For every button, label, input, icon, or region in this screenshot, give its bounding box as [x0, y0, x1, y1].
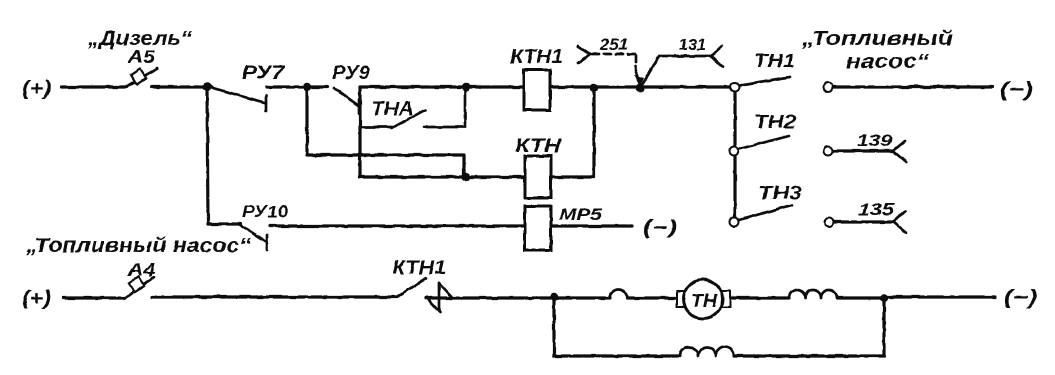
node junction 1: [203, 83, 211, 91]
svg-text:КТН1: КТН1: [392, 258, 446, 279]
wire to TH1 contact: [644, 85, 731, 88]
node junction 6: [550, 293, 558, 301]
svg-text:131: 131: [679, 35, 706, 54]
coil МР5: [525, 206, 551, 250]
contact ТН2: [730, 136, 907, 162]
contact РУ7: [213, 88, 266, 111]
svg-text:РУ10: РУ10: [242, 202, 289, 221]
svg-text:насос“: насос“: [846, 51, 929, 73]
contact ТНА: [360, 87, 465, 128]
svg-text:(−): (−): [1004, 287, 1037, 309]
inductor hump single: [610, 290, 627, 299]
contact ТН3: [730, 205, 907, 233]
svg-text:„Топливный насос“: „Топливный насос“: [25, 235, 251, 257]
wire mark 251: [578, 46, 644, 87]
svg-text:А5: А5: [127, 47, 156, 67]
wire KTN1 contact to motor branch: [426, 296, 610, 299]
node junction wire 251/131: [636, 84, 645, 93]
wire top main to KTN1: [360, 85, 524, 88]
svg-text:135: 135: [858, 200, 895, 219]
wire A5 to node 1: [152, 85, 212, 88]
wire series winding to node 7: [837, 296, 884, 299]
svg-text:КТН: КТН: [515, 136, 563, 157]
contact РУ9: [334, 88, 359, 114]
wire vertical left shunt: [552, 298, 555, 356]
breaker A4: [125, 277, 154, 298]
contact ТН1: [731, 77, 833, 92]
svg-text:(−): (−): [643, 217, 677, 239]
wire (+) to A5: [62, 85, 127, 88]
wire RU7 to node 2: [267, 85, 327, 88]
wire vertical TH group: [733, 90, 736, 222]
wire motor to series winding: [731, 296, 789, 299]
wire mark 131: [641, 46, 723, 87]
wire KTN1 coil to node 251/131: [550, 85, 641, 88]
wire KTN coil to vertical: [551, 175, 594, 178]
svg-text:(+): (+): [22, 288, 51, 310]
svg-text:МР5: МР5: [559, 205, 603, 224]
node junction 4: [590, 84, 598, 92]
motor ТН: [677, 280, 730, 319]
svg-text:ТН3: ТН3: [758, 183, 802, 203]
inductor 3 humps shunt: [680, 347, 734, 356]
wire node 7 to minus: [884, 295, 995, 298]
svg-text:„Топливный: „Топливный: [801, 28, 953, 50]
inductor 3 humps: [789, 290, 837, 298]
svg-text:(−): (−): [1000, 79, 1033, 101]
svg-text:ТНА: ТНА: [371, 99, 414, 120]
node junction 2: [303, 83, 311, 91]
wire vertical left of THA: [358, 87, 361, 177]
svg-text:РУ9: РУ9: [332, 63, 370, 84]
svg-text:(+): (+): [22, 78, 51, 100]
contact КТН1: [397, 278, 452, 312]
svg-text:251: 251: [599, 35, 628, 54]
svg-text:ТН2: ТН2: [754, 112, 796, 132]
node junction 3: [462, 83, 470, 91]
wire (+) to A4: [63, 296, 125, 299]
wire RU10 to MP5 coil: [270, 224, 525, 227]
svg-text:А4: А4: [127, 260, 155, 280]
wire vertical to RU10 row: [207, 87, 208, 224]
wire vertical right shunt: [882, 298, 885, 356]
node junction 7: [880, 294, 888, 302]
contact РУ10: [240, 225, 267, 250]
wire branch y177: [360, 175, 525, 178]
coil КТН1: [524, 70, 550, 110]
wire corner RU10: [208, 222, 240, 225]
svg-text:РУ7: РУ7: [242, 63, 286, 84]
wire hump to motor: [627, 296, 685, 299]
wire to minus: [833, 85, 992, 88]
wire branch y155: [307, 87, 464, 177]
wire bottom shunt: [554, 354, 680, 357]
wire MP5 coil to minus: [551, 224, 632, 227]
wire shunt right segment: [734, 354, 884, 357]
svg-text:ТН1: ТН1: [754, 51, 795, 71]
node junction 5: [462, 173, 470, 181]
wire A4 to KTN1 contact: [152, 295, 397, 298]
wire vertical KTN branch: [592, 88, 595, 177]
svg-text:КТН1: КТН1: [510, 47, 563, 68]
svg-text:139: 139: [857, 131, 893, 150]
svg-text:ТН: ТН: [691, 291, 718, 311]
coil КТН: [525, 156, 551, 198]
breaker A5: [127, 68, 157, 87]
